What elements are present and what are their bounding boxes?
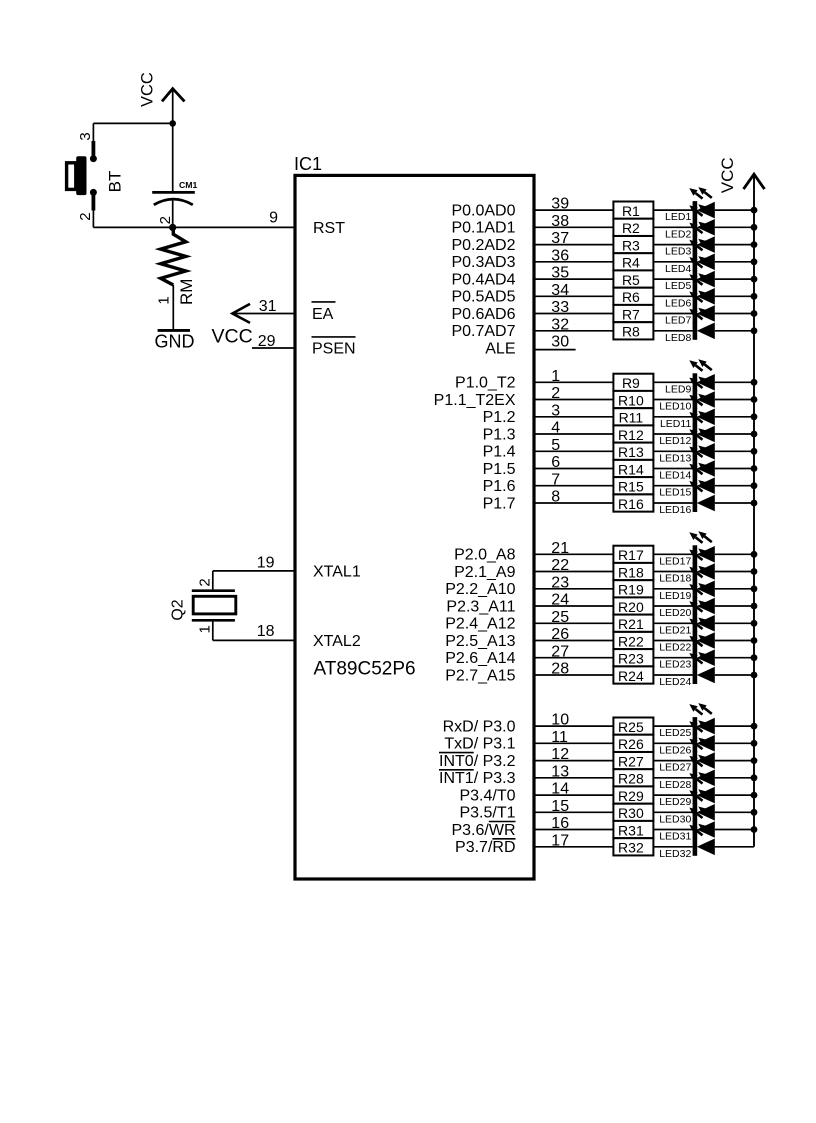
LED 31 diode	[689, 807, 715, 839]
svg-text:P0.1AD1: P0.1AD1	[451, 220, 515, 237]
wire LED26 to VCC rail	[715, 742, 754, 744]
svg-text:R26: R26	[618, 736, 644, 752]
wire LED14 to VCC rail	[715, 468, 754, 470]
svg-text:P0.2AD2: P0.2AD2	[451, 237, 515, 254]
power flag VCC (rail top)	[718, 157, 765, 193]
wire R18 to LED18	[653, 571, 692, 573]
wire R25 to LED25	[653, 725, 692, 727]
wire pin 39 to R1	[534, 209, 613, 211]
pin name P2.5_A13	[445, 633, 515, 650]
svg-text:LED4: LED4	[665, 263, 691, 275]
wire RM to GND	[172, 285, 174, 330]
resistor R11	[613, 408, 653, 425]
pin name P2.1_A9	[454, 564, 515, 581]
node junction rail row 11	[751, 413, 758, 420]
svg-text:R31: R31	[618, 822, 644, 838]
wire button bottom to RST net	[92, 211, 94, 228]
resistor R20	[613, 597, 653, 614]
svg-text:INT0/ P3.2: INT0/ P3.2	[439, 753, 516, 770]
resistor R22	[613, 632, 653, 649]
svg-text:R2: R2	[622, 220, 640, 236]
wire pin 10 to R25	[534, 725, 613, 727]
svg-text:R13: R13	[618, 444, 644, 460]
svg-text:R5: R5	[622, 272, 640, 288]
wire R14 to LED14	[653, 468, 692, 470]
pin name INT1/ P3.3	[439, 770, 516, 787]
wire PSEN pin	[252, 347, 295, 349]
LED 32 diode	[689, 824, 715, 856]
LED 6 diode	[689, 273, 715, 305]
LED 4 diode	[689, 239, 715, 271]
pin name P0.3AD3	[451, 254, 515, 271]
svg-text:31: 31	[259, 298, 277, 315]
LED 9 diode	[689, 359, 715, 391]
resistor R18	[613, 563, 653, 580]
resistor R8	[613, 322, 653, 339]
svg-text:LED6: LED6	[665, 297, 691, 309]
svg-text:R18: R18	[618, 564, 644, 580]
node junction rail row 18	[751, 568, 758, 575]
svg-text:P2.2_A10: P2.2_A10	[445, 581, 515, 598]
wire LED20 to VCC rail	[715, 605, 754, 607]
LED 26 diode	[689, 720, 715, 752]
svg-text:P3.4/T0: P3.4/T0	[459, 787, 515, 804]
LED 8 diode	[689, 308, 715, 340]
svg-text:R21: R21	[618, 616, 644, 632]
wire pin 1 to R9	[534, 381, 613, 383]
wire XTAL2 pin 18	[213, 622, 295, 641]
wire RST net (button/cap/resistor to IC pin 9)	[93, 226, 295, 228]
node junction rail row 28	[751, 774, 758, 781]
svg-text:2: 2	[157, 216, 174, 224]
node junction rail row 5	[751, 276, 758, 283]
svg-text:18: 18	[257, 623, 275, 640]
node junction rail row 14	[751, 465, 758, 472]
wire R5 to LED5	[653, 278, 692, 280]
resistor R9	[613, 374, 653, 391]
svg-text:LED22: LED22	[659, 642, 691, 654]
resistor R29	[613, 786, 653, 804]
node junction rail row 25	[751, 723, 758, 730]
svg-text:R10: R10	[618, 392, 644, 408]
node junction rail row 4	[751, 258, 758, 265]
resistor R31	[613, 821, 653, 838]
wire pin 21 to R17	[534, 553, 613, 555]
svg-text:GND: GND	[155, 332, 195, 352]
svg-text:P0.4AD4: P0.4AD4	[451, 271, 515, 288]
resistor R26	[613, 735, 653, 752]
svg-text:LED12: LED12	[659, 435, 691, 447]
pin name P3.5/T1	[459, 805, 515, 822]
svg-text:R30: R30	[618, 805, 644, 821]
svg-text:R17: R17	[618, 547, 644, 563]
resistor R6	[613, 288, 653, 305]
wire LED19 to VCC rail	[715, 588, 754, 590]
pin name P2.3_A11	[446, 598, 515, 615]
svg-text:P2.1_A9: P2.1_A9	[454, 564, 515, 581]
LED 22 diode	[689, 618, 715, 650]
svg-text:LED16: LED16	[659, 504, 691, 516]
svg-text:LED24: LED24	[659, 676, 691, 688]
svg-text:LED29: LED29	[659, 796, 691, 808]
wire LED22 to VCC rail	[715, 640, 754, 642]
LED 7 diode	[689, 291, 715, 323]
resistor R4	[613, 253, 653, 270]
svg-text:1: 1	[197, 625, 214, 633]
svg-text:LED17: LED17	[659, 555, 691, 567]
svg-text:P2.7_A15: P2.7_A15	[445, 667, 515, 684]
svg-text:LED30: LED30	[659, 813, 691, 825]
svg-text:R1: R1	[622, 203, 640, 219]
wire R7 to LED7	[653, 313, 692, 315]
svg-text:LED9: LED9	[665, 383, 691, 395]
ground GND	[155, 330, 195, 351]
pin name P2.0_A8	[454, 547, 515, 564]
pin name TxD/ P3.1	[444, 736, 515, 753]
svg-text:R28: R28	[618, 771, 644, 787]
wire LED8 to VCC rail	[715, 330, 754, 332]
wire LED13 to VCC rail	[715, 450, 754, 452]
svg-text:Q2: Q2	[170, 599, 187, 620]
node junction rail row 12	[751, 431, 758, 438]
pin name PSEN (active low)	[312, 337, 356, 358]
svg-text:RST: RST	[313, 220, 345, 237]
wire pin 25 to R21	[534, 622, 613, 624]
wire LED27 to VCC rail	[715, 760, 754, 762]
node junction rail row 23	[751, 654, 758, 661]
pin name P0.6AD6	[451, 306, 515, 323]
svg-text:P2.4_A12: P2.4_A12	[445, 616, 515, 633]
resistor R30	[613, 804, 653, 821]
LED 21 diode	[689, 600, 715, 632]
svg-text:LED25: LED25	[659, 727, 691, 739]
wire pin 26 to R22	[534, 640, 613, 642]
resistor R5	[613, 270, 653, 288]
wire LED17 to VCC rail	[715, 553, 754, 555]
svg-text:R11: R11	[619, 410, 644, 426]
LED 16 diode	[689, 480, 715, 512]
wire LED23 to VCC rail	[715, 657, 754, 659]
wire LED18 to VCC rail	[715, 571, 754, 573]
svg-text:P1.3: P1.3	[483, 426, 516, 443]
wire R28 to LED28	[653, 777, 692, 779]
wire R29 to LED29	[653, 794, 692, 796]
wire pin 11 to R26	[534, 742, 613, 744]
svg-text:IC1: IC1	[294, 154, 322, 174]
svg-text:R19: R19	[618, 582, 644, 598]
svg-text:P0.3AD3: P0.3AD3	[451, 254, 515, 271]
wire LED11 to VCC rail	[715, 416, 754, 418]
wire LED31 to VCC rail	[715, 829, 754, 831]
power flag VCC (top left)	[139, 72, 185, 107]
wire capacitor to junction	[172, 200, 174, 227]
wire LED5 to VCC rail	[715, 278, 754, 280]
svg-text:LED13: LED13	[659, 452, 691, 464]
node junction rail row 15	[751, 482, 758, 489]
LED 28 diode	[689, 755, 715, 787]
wire pin 7 to R15	[534, 485, 613, 487]
pin name P1.6	[483, 478, 516, 495]
pin name P0.2AD2	[451, 237, 515, 254]
resistor R32	[613, 838, 653, 855]
node junction rail row 31	[751, 826, 758, 833]
IC U1 AT89C52 body	[295, 175, 534, 879]
svg-text:R16: R16	[618, 496, 644, 512]
svg-text:LED19: LED19	[659, 590, 691, 602]
wire pin 33 to R7	[534, 313, 613, 315]
svg-text:P1.0_T2: P1.0_T2	[455, 375, 516, 392]
resistor R17	[613, 546, 653, 563]
svg-text:P1.6: P1.6	[483, 478, 516, 495]
node junction rail row 8	[751, 327, 758, 334]
wire pin 15 to R30	[534, 811, 613, 813]
resistor R7	[613, 305, 653, 322]
svg-text:VCC: VCC	[212, 326, 253, 348]
wire LED21 to VCC rail	[715, 622, 754, 624]
svg-text:R15: R15	[618, 479, 644, 495]
svg-text:TxD/ P3.1: TxD/ P3.1	[444, 736, 515, 753]
node junction rail row 1	[751, 207, 758, 214]
svg-text:R12: R12	[618, 427, 644, 443]
wire R16 to LED16	[653, 502, 692, 504]
wire pin 5 to R13	[534, 450, 613, 452]
pin name P1.4	[483, 444, 516, 461]
wire R30 to LED30	[653, 811, 692, 813]
svg-text:LED1: LED1	[665, 211, 691, 223]
wire pin 23 to R19	[534, 588, 613, 590]
pin name P3.6/WR	[451, 822, 515, 839]
wire pin 28 to R24	[534, 674, 613, 676]
svg-text:LED7: LED7	[665, 315, 691, 327]
node junction rail row 30	[751, 809, 758, 816]
wire pin 2 to R10	[534, 399, 613, 401]
wire R19 to LED19	[653, 588, 692, 590]
wire pin 37 to R3	[534, 244, 613, 246]
wire ALE pin 30 stub	[534, 349, 576, 351]
wire R6 to LED6	[653, 295, 692, 297]
svg-text:R25: R25	[618, 719, 644, 735]
node junction rail row 9	[751, 379, 758, 386]
node junction RST net	[169, 224, 176, 231]
resistor R24	[613, 666, 653, 683]
pin name INT0/ P3.2	[439, 753, 516, 770]
wire R17 to LED17	[653, 553, 692, 555]
pin name P0.7AD7	[451, 323, 515, 340]
wire R31 to LED31	[653, 829, 692, 831]
LED 19 diode	[689, 566, 715, 598]
pin name P1.0_T2	[455, 375, 516, 392]
wire R11 to LED11	[653, 416, 692, 418]
wire R32 to LED32	[653, 846, 692, 848]
pin name P0.1AD1	[451, 220, 515, 237]
node junction rail row 22	[751, 637, 758, 644]
LED 10 diode	[689, 377, 715, 409]
pin name P0.5AD5	[451, 289, 515, 306]
node junction rail row 24	[751, 672, 758, 679]
wire LED3 to VCC rail	[715, 244, 754, 246]
svg-text:R23: R23	[618, 651, 644, 667]
wire pin 14 to R29	[534, 794, 613, 796]
wire LED30 to VCC rail	[715, 811, 754, 813]
wire R10 to LED10	[653, 399, 692, 401]
svg-text:2: 2	[197, 578, 214, 586]
wire LED4 to VCC rail	[715, 261, 754, 263]
LED 15 diode	[689, 463, 715, 495]
svg-text:CM1: CM1	[179, 180, 198, 190]
wire LED12 to VCC rail	[715, 433, 754, 435]
wire LED24 to VCC rail	[715, 674, 754, 676]
wire LED2 to VCC rail	[715, 226, 754, 228]
resistor R19	[613, 580, 653, 597]
wire pin 3 to R11	[534, 416, 613, 418]
LED 2 diode	[689, 204, 715, 236]
svg-text:LED10: LED10	[659, 401, 691, 413]
svg-text:LED23: LED23	[659, 659, 691, 671]
wire pin 32 to R8	[534, 330, 613, 332]
node junction rail row 2	[751, 224, 758, 231]
svg-text:9: 9	[269, 209, 278, 226]
pin name P1.5	[483, 461, 516, 478]
node junction rail row 3	[751, 241, 758, 248]
svg-text:PSEN: PSEN	[312, 341, 356, 358]
node junction rail row 27	[751, 757, 758, 764]
wire R15 to LED15	[653, 485, 692, 487]
wire junction to button top	[93, 123, 172, 141]
node junction rail row 26	[751, 740, 758, 747]
pin name P0.0AD0	[451, 202, 515, 219]
svg-text:2: 2	[77, 212, 94, 220]
wire R13 to LED13	[653, 450, 692, 452]
wire R24 to LED24	[653, 674, 692, 676]
wire pin 6 to R14	[534, 468, 613, 470]
resistor R3	[613, 236, 653, 253]
wire R23 to LED23	[653, 657, 692, 659]
wire LED15 to VCC rail	[715, 485, 754, 487]
wire pin 38 to R2	[534, 226, 613, 228]
node junction rail row 10	[751, 396, 758, 403]
svg-text:3: 3	[77, 132, 94, 140]
svg-text:19: 19	[257, 555, 275, 572]
svg-text:P2.6_A14: P2.6_A14	[445, 650, 515, 667]
pin name P2.2_A10	[445, 581, 515, 598]
svg-text:R9: R9	[622, 375, 640, 391]
resistor R27	[613, 752, 653, 769]
svg-text:LED28: LED28	[659, 779, 691, 791]
svg-text:LED5: LED5	[665, 280, 691, 292]
svg-text:RM: RM	[177, 279, 196, 305]
wire R8 to LED8	[653, 330, 692, 332]
wire LED16 to VCC rail	[715, 502, 754, 504]
svg-text:INT1/ P3.3: INT1/ P3.3	[439, 770, 516, 787]
LED 11 diode	[689, 394, 715, 426]
wire R26 to LED26	[653, 742, 692, 744]
wire LED25 to VCC rail	[715, 725, 754, 727]
wire R21 to LED21	[653, 622, 692, 624]
svg-text:P1.5: P1.5	[483, 461, 516, 478]
LED 14 diode	[689, 446, 715, 478]
wire EA pin	[234, 313, 295, 315]
svg-text:XTAL2: XTAL2	[313, 633, 361, 650]
svg-text:R7: R7	[622, 306, 640, 322]
svg-text:30: 30	[551, 334, 569, 351]
wire LED9 to VCC rail	[715, 381, 754, 383]
svg-text:LED15: LED15	[659, 487, 691, 499]
svg-text:VCC: VCC	[139, 72, 157, 107]
wire pin 12 to R27	[534, 760, 613, 762]
wire pin 36 to R4	[534, 261, 613, 263]
svg-text:P1.1_T2EX: P1.1_T2EX	[434, 392, 516, 409]
resistor R21	[613, 615, 653, 633]
svg-text:R8: R8	[622, 324, 640, 340]
node junction rail row 6	[751, 293, 758, 300]
crystal Q2	[192, 591, 236, 621]
svg-text:R22: R22	[618, 633, 644, 649]
svg-text:R29: R29	[618, 788, 644, 804]
LED 20 diode	[689, 583, 715, 615]
LED 1 diode	[689, 187, 715, 219]
LED 30 diode	[689, 789, 715, 821]
svg-text:R24: R24	[618, 668, 644, 684]
svg-text:LED21: LED21	[659, 624, 691, 636]
svg-text:R4: R4	[622, 255, 640, 271]
wire pin 4 to R12	[534, 433, 613, 435]
LED 3 diode	[689, 222, 715, 254]
wire XTAL1 pin 19	[213, 571, 295, 590]
wire R3 to LED3	[653, 244, 692, 246]
svg-text:LED26: LED26	[659, 744, 691, 756]
LED 24 diode	[689, 652, 715, 684]
LED 13 diode	[689, 428, 715, 460]
svg-text:LED32: LED32	[659, 848, 691, 860]
wire pin 17 to R32	[534, 846, 613, 848]
node junction rail row 19	[751, 585, 758, 592]
svg-text:P2.3_A11: P2.3_A11	[446, 598, 515, 615]
wire VCC stem down to capacitor	[172, 89, 174, 192]
svg-text:1: 1	[155, 296, 172, 304]
svg-text:RxD/ P3.0: RxD/ P3.0	[443, 718, 516, 735]
resistor R12	[613, 425, 653, 442]
wire LED1 to VCC rail	[715, 209, 754, 211]
node junction rail row 29	[751, 792, 758, 799]
svg-text:AT89C52P6: AT89C52P6	[314, 659, 416, 680]
signal arrow on EA pin 31	[232, 304, 250, 323]
svg-text:ALE: ALE	[485, 341, 515, 358]
wire R12 to LED12	[653, 433, 692, 435]
pin name P2.4_A12	[445, 616, 515, 633]
resistor R23	[613, 649, 653, 666]
wire R20 to LED20	[653, 605, 692, 607]
svg-text:LED11: LED11	[660, 418, 691, 430]
svg-text:LED31: LED31	[659, 831, 691, 843]
svg-text:BT: BT	[106, 171, 125, 193]
node junction rail row 7	[751, 310, 758, 317]
svg-text:LED27: LED27	[659, 762, 691, 774]
LED 12 diode	[689, 411, 715, 443]
wire R27 to LED27	[653, 760, 692, 762]
resistor R28	[613, 769, 653, 786]
wire pin 34 to R6	[534, 295, 613, 297]
svg-text:P0.5AD5: P0.5AD5	[451, 289, 515, 306]
resistor R1	[613, 202, 653, 219]
pin name P1.7	[483, 495, 516, 512]
svg-text:P1.4: P1.4	[483, 444, 516, 461]
pin name P1.1_T2EX	[434, 392, 516, 409]
wire R4 to LED4	[653, 261, 692, 263]
wire VCC rail	[753, 174, 755, 847]
LED 25 diode	[689, 703, 715, 735]
resistor R25	[613, 718, 653, 735]
resistor R15	[613, 477, 653, 494]
